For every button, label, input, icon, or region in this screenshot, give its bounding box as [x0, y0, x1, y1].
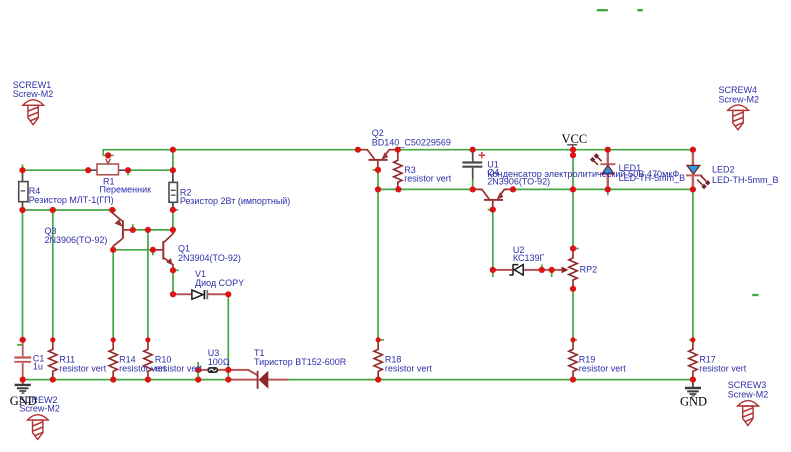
wire R2 bottom to Q1 collector node [173, 210, 178, 230]
resistor R11 (zigzag) [49, 340, 57, 380]
label SCREW3 [728, 380, 769, 399]
node U2 right [539, 267, 545, 273]
wire stub above R4 [22, 165, 24, 171]
wire stub below LED1 [607, 189, 609, 195]
wire mid rail left portion [378, 188, 473, 190]
VCC supply symbol [567, 145, 577, 148]
zener diode U2 (KC139) [493, 264, 542, 275]
svg-text:BD140_C50229569: BD140_C50229569 [372, 138, 451, 148]
node rail C1 [20, 377, 26, 383]
node U1 top [470, 147, 476, 153]
svg-text:2N3906(TO-92): 2N3906(TO-92) [487, 176, 550, 186]
node rail R19 [570, 377, 576, 383]
node V1 cathode [225, 291, 231, 297]
node Q3 base stub [130, 227, 136, 233]
svg-text:Резистор 2Вт (импортный): Резистор 2Вт (импортный) [180, 196, 290, 206]
label LED1 [619, 163, 686, 183]
svg-text:2N3904(TO-92): 2N3904(TO-92) [178, 253, 241, 263]
svg-text:resistor vert: resistor vert [155, 363, 203, 373]
label R2 [180, 188, 290, 207]
label R14 [119, 354, 167, 373]
top margin green dash B [637, 9, 643, 11]
node Q2 collector [355, 147, 361, 153]
node C1 top [20, 337, 26, 343]
resistor R17 (zigzag) [689, 340, 697, 380]
label R1 [100, 176, 152, 194]
node rail R17 [690, 377, 696, 383]
transistor Q4 (PNP 2N3906) [473, 189, 513, 209]
node Q1 emitter [170, 267, 176, 273]
resistor R18 (zigzag) [374, 340, 382, 380]
svg-text:LED-TH-5mm_B: LED-TH-5mm_B [619, 173, 686, 183]
node mid rail VCC column [570, 186, 576, 192]
label Q1 [178, 243, 241, 263]
label C1 [33, 354, 45, 372]
svg-text:resistor vert: resistor vert [579, 363, 627, 373]
resistor R10 (zigzag) [144, 340, 152, 380]
svg-text:КС139Г: КС139Г [513, 253, 545, 263]
node rail T1 cathode [225, 377, 231, 383]
svg-text:Screw-M2: Screw-M2 [728, 389, 769, 399]
svg-text:resistor vert: resistor vert [404, 174, 452, 184]
wire bottom rail left [23, 379, 229, 381]
wire Q3 base net to R2 bottom node [133, 224, 173, 230]
node R19 top [570, 337, 575, 342]
right margin green dash [752, 294, 758, 296]
node U1 bottom / Q4 collector [470, 186, 476, 192]
label R11 [59, 354, 107, 373]
node R17 top [690, 337, 695, 342]
node R1 left [85, 167, 91, 173]
label U3 [208, 348, 230, 367]
svg-text:Screw-M2: Screw-M2 [13, 89, 54, 99]
wire stub above U2 right node [542, 264, 552, 277]
top margin green dash A [597, 9, 608, 11]
capacitor C1 [14, 340, 31, 380]
node RP2 wiper wire [549, 267, 555, 273]
node R10 top [145, 337, 150, 342]
wire R1 left to R4 top [23, 169, 89, 171]
label SCREW2 [19, 395, 60, 413]
node R14 top [111, 337, 116, 342]
label U1 [487, 159, 679, 179]
wire RP2 bottom to R19 [573, 289, 577, 340]
svg-text:resistor vert: resistor vert [699, 363, 747, 373]
LED1 (LED-TH-5mm_B) [590, 150, 616, 190]
svg-text:Тиристор BT152-600R: Тиристор BT152-600R [254, 357, 347, 367]
label SCREW1 [13, 80, 54, 99]
wire R11 column [52, 210, 54, 340]
transistor Q3 (PNP 2N3906) [112, 210, 133, 250]
label R4 [29, 186, 114, 205]
node LED2 bottom [690, 186, 696, 192]
label LED2 [712, 164, 779, 185]
LED2 (LED-TH-5mm_B) [686, 150, 710, 190]
wire Q1 emitter to V1 [173, 270, 179, 294]
wire R10 column [147, 230, 149, 340]
label R17 [699, 354, 747, 373]
node U3 right [225, 367, 231, 373]
ground GND3 [685, 380, 701, 396]
U1 plus sign [479, 152, 485, 158]
node rail R11 [50, 377, 56, 383]
screw SCREW3 [738, 401, 759, 426]
node VCC pin [570, 152, 576, 158]
node LED1 bottom [605, 186, 611, 192]
svg-text:Screw-M2: Screw-M2 [719, 94, 760, 104]
svg-text:LED2: LED2 [712, 164, 735, 174]
node Q3 collector [110, 247, 116, 253]
node Q3 emitter [109, 207, 115, 213]
label Q4 [487, 167, 550, 186]
node Q4 base [490, 207, 496, 213]
node RP2 top [570, 245, 576, 251]
node R11 top [50, 337, 55, 342]
node R4 top [19, 167, 25, 173]
resistor U3 (chip symbol) [198, 367, 257, 375]
svg-text:Q1: Q1 [178, 243, 190, 253]
svg-text:resistor vert: resistor vert [385, 363, 433, 373]
node LED1 top [605, 147, 611, 153]
ground GND1 [15, 380, 31, 394]
transistor Q1 (NPN 2N3904) [153, 230, 173, 270]
wire R18 column [378, 189, 384, 339]
svg-text:RP2: RP2 [580, 265, 598, 275]
node RP2 bottom [570, 286, 576, 292]
svg-text:GND: GND [10, 394, 37, 408]
svg-text:Резистор МЛТ-1(ГП): Резистор МЛТ-1(ГП) [29, 195, 114, 205]
label R18 [385, 354, 433, 373]
svg-text:Переменник: Переменник [100, 185, 152, 195]
node R4 bottom [19, 207, 25, 213]
wire R2 column from top rail [172, 150, 174, 171]
wire top rail right segment (VCC) [398, 149, 693, 151]
node R2 bottom [170, 207, 176, 213]
potentiometer RP2 (zigzag with wiper arrow) [542, 249, 577, 289]
wire R14 column [112, 250, 114, 340]
label U2 [513, 245, 545, 263]
node R2 top [170, 167, 176, 173]
wire VCC column through mid rail to RP2 [572, 150, 574, 249]
node mid rail R18 junction [375, 186, 381, 192]
wire stub U3 node to bottom rail [197, 362, 199, 380]
label R10 [155, 354, 203, 373]
wire RP2 top stub [573, 248, 579, 250]
node rail R10 [145, 377, 151, 383]
resistor R4 (box symbol, gray) [19, 170, 28, 210]
node R10 top wire [145, 227, 151, 233]
wire R1 right to R2 column [128, 170, 173, 175]
node top rail at R2 [170, 147, 176, 153]
node Q2 emitter / R3 [395, 147, 401, 153]
label Q2 [372, 128, 451, 148]
resistor R2 (box symbol, gray) [169, 170, 177, 210]
node U2 left [490, 267, 496, 273]
node V1 anode [170, 291, 176, 297]
svg-text:LED-TH-5mm_B: LED-TH-5mm_B [712, 175, 779, 185]
resistor R3 (zigzag) [394, 150, 402, 190]
resistor R19 (zigzag) [569, 340, 577, 380]
node R11 top wire [50, 207, 56, 213]
wire U1 bottom stub [472, 180, 474, 190]
label RP2 [580, 265, 598, 275]
wire Q4 base down to U2 [488, 210, 493, 277]
transistor Q2 (PNP BD140) [358, 150, 398, 170]
screw SCREW4 [728, 105, 749, 130]
screw SCREW2 [27, 415, 48, 440]
node rail U3 stub [195, 377, 201, 383]
wire top rail left segment with corner to R1 wiper [102, 150, 358, 156]
label R19 [579, 354, 627, 373]
svg-text:2N3906(TO-92): 2N3906(TO-92) [45, 235, 108, 245]
diode V1 [173, 290, 228, 299]
wire LED2 down to R17 [689, 189, 693, 339]
thyristor T1 (BT152-600R) [228, 371, 288, 389]
potentiometer R1 (box with wiper arrow) [88, 155, 128, 174]
svg-text:Q2: Q2 [372, 128, 384, 138]
label T1 [254, 348, 347, 367]
node Q4 emitter [510, 186, 516, 192]
node VCC junction [570, 147, 576, 153]
node rail R18 [375, 377, 381, 383]
svg-text:LED1: LED1 [619, 163, 642, 173]
label SCREW4 [719, 85, 760, 104]
node R1 wiper [105, 152, 111, 158]
node R18 top [376, 337, 381, 342]
resistor R14 (zigzag) [109, 340, 117, 380]
svg-text:100Ω: 100Ω [208, 357, 230, 367]
screw SCREW1 [23, 100, 44, 125]
svg-text:GND: GND [680, 394, 707, 408]
wire Q3 collector to Q1 base [113, 250, 153, 256]
wire mid rail right portion [513, 188, 693, 190]
node rail R14 [110, 377, 116, 383]
node Q2 base [375, 167, 381, 173]
node R1 right [125, 167, 131, 173]
capacitor U1 (electrolytic, gray plates) [462, 150, 482, 180]
svg-text:resistor vert: resistor vert [59, 363, 107, 373]
svg-text:1u: 1u [33, 361, 43, 371]
node Q1 collector [170, 227, 176, 233]
svg-text:VCC: VCC [562, 132, 588, 146]
label Q3 [45, 226, 108, 245]
label R3 [404, 165, 452, 184]
label V1 [195, 269, 244, 288]
wire bottom rail right [289, 379, 693, 381]
node R3 bottom [395, 186, 401, 192]
wire left column R4 to C1 [17, 210, 22, 345]
wire V1 cathode down to U3 node [227, 294, 229, 379]
svg-text:Диод COPY: Диод COPY [195, 278, 244, 288]
wire R4 bottom to Q3 emitter [23, 209, 117, 211]
wire Q2 base down to mid rail [373, 170, 378, 190]
node U3 left [195, 367, 201, 373]
node Q1 base [150, 247, 156, 253]
node LED2 top [690, 147, 696, 153]
